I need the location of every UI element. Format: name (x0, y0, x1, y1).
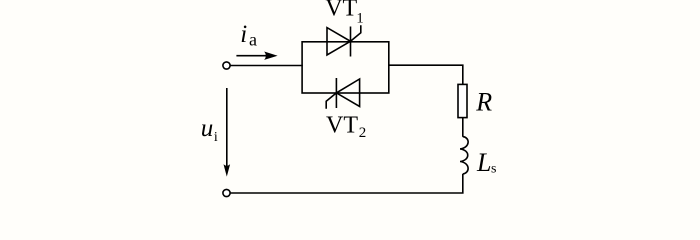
svg-text:s: s (491, 162, 496, 177)
resistor R (458, 84, 467, 117)
terminal: input node top (open circle) (223, 62, 230, 69)
svg-text:VT: VT (325, 0, 357, 21)
wire: top input wire to thyristor block (230, 65, 302, 67)
svg-text:R: R (475, 88, 492, 117)
arrow: current direction i_a (236, 52, 277, 60)
inductor Ls (3-loop coil) (460, 137, 468, 174)
svg-text:i: i (240, 21, 247, 48)
wire: rectangle loop holding the two antiparallel thyristors (302, 42, 389, 93)
wire: resistor to inductor (462, 118, 464, 137)
wire: block output to load branch (389, 65, 463, 84)
terminal: input node bottom (open circle) (223, 189, 230, 196)
thyristor VT2 (bottom branch, pointing left) (326, 78, 359, 109)
svg-text:1: 1 (356, 11, 364, 27)
svg-text:VT: VT (326, 113, 358, 139)
arrow: voltage u_i (downward) (224, 88, 231, 177)
thyristor VT1 (top branch, pointing right) (327, 25, 361, 56)
svg-text:u: u (201, 115, 214, 142)
svg-text:L: L (476, 148, 491, 177)
wire: inductor to bottom rail (230, 174, 462, 193)
svg-text:a: a (249, 29, 257, 49)
svg-text:2: 2 (359, 125, 367, 141)
svg-text:i: i (214, 130, 218, 145)
